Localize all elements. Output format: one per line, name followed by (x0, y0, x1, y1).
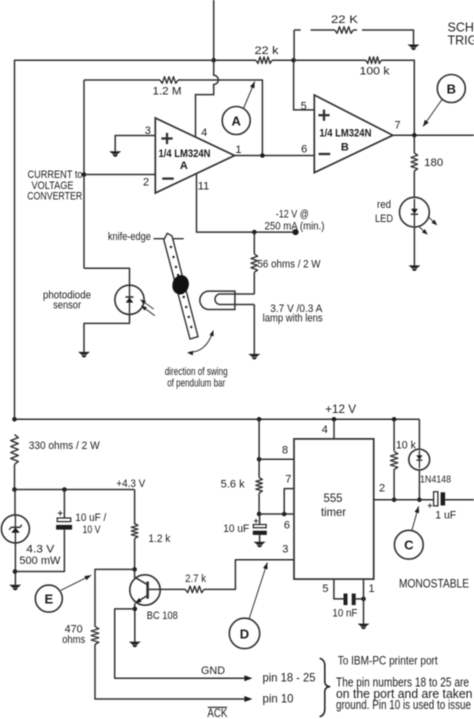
svg-text:BC 108: BC 108 (147, 610, 178, 622)
wire 22K dashed segment a (294, 29, 301, 31)
arrow label C to pin2 node (412, 506, 419, 530)
wire pin 5 stub (294, 60, 315, 110)
svg-text:1/4 LM324N: 1/4 LM324N (319, 128, 371, 140)
wire pin 1 drop (363, 579, 365, 624)
wire collector branch to 470 (95, 569, 135, 626)
wire 10uF2 to ground (259, 535, 261, 542)
resistor 1.2k (131, 524, 138, 539)
svg-text:timer: timer (321, 505, 346, 519)
wire LED to ground (413, 227, 415, 265)
svg-text:5: 5 (301, 100, 307, 112)
resistor 100k (366, 57, 382, 64)
resistor 22k (256, 57, 272, 64)
svg-text:1.2 k: 1.2 k (148, 533, 170, 545)
wire 1.2M feedback (84, 79, 160, 81)
pendulum bar (164, 233, 198, 339)
node +12V left rail junction (12, 417, 17, 422)
IC 555 box (294, 439, 374, 579)
svg-text:A: A (180, 160, 188, 172)
diode 1N4148 symbol (418, 451, 420, 469)
svg-text:2: 2 (379, 483, 385, 495)
wire node to 100k (294, 59, 366, 61)
svg-text:direction of swing: direction of swing (165, 366, 228, 378)
ground LED (408, 265, 420, 268)
transistor emitter lead (137, 596, 146, 602)
resistor 470 ohms (91, 627, 99, 645)
svg-text:1: 1 (369, 583, 375, 595)
capacitor 10uF/10V (57, 518, 70, 522)
wire 10k drop (393, 419, 395, 451)
transistor Q1 BC108 circle (130, 575, 160, 605)
svg-text:555: 555 (324, 491, 343, 505)
node 5.6k-10uF junction (257, 512, 262, 517)
node +4.3V zener junction (12, 487, 17, 492)
wire 22K feedback riser (293, 30, 295, 60)
svg-text:5.6 k: 5.6 k (221, 479, 245, 491)
svg-text:3: 3 (145, 125, 151, 137)
svg-text:330 ohms / 2 W: 330 ohms / 2 W (29, 440, 101, 452)
wire 10nF to pin1 (356, 598, 364, 600)
terminal -12V supply dot (292, 229, 298, 235)
svg-text:11: 11 (198, 181, 209, 193)
svg-text:10 k: 10 k (396, 440, 416, 452)
wire pin 2 stub (374, 499, 434, 501)
photodiode symbol (129, 286, 131, 314)
wire zener bottom (14, 543, 16, 585)
wire 22K dashed segment b (311, 29, 335, 31)
wire 10uF top lead (63, 490, 65, 519)
wire +12V corner to diode (418, 419, 420, 449)
wire +12V feed from top edge (213, 0, 215, 60)
arrow label B to output node (423, 100, 442, 127)
arrow pin 18-25 (244, 675, 252, 681)
wire 22k input segment (214, 59, 256, 61)
wire pin 6 stub (259, 513, 294, 515)
node diode-pin2 junction (417, 498, 422, 503)
resistor 10k (390, 452, 397, 470)
svg-text:2: 2 (143, 176, 149, 188)
circle label D (229, 618, 259, 648)
svg-text:TRIGGER: TRIGGER (448, 34, 474, 48)
svg-text:7: 7 (395, 119, 401, 131)
op-amp B minus input symbol (319, 153, 331, 155)
wire 56 ohm to lamp (253, 272, 255, 294)
wire 22K segment d to corner (362, 30, 414, 45)
svg-text:pin 18 - 25: pin 18 - 25 (263, 671, 316, 685)
svg-text:22 k: 22 k (255, 45, 280, 57)
wire output to 180 (413, 135, 415, 153)
brace printer port (320, 658, 331, 716)
svg-text:C: C (404, 538, 414, 553)
wire 330 to +4.3 node (14, 464, 16, 489)
circle label A (222, 107, 250, 135)
lamp filament lens loop (215, 294, 254, 305)
svg-text:500 mW: 500 mW (19, 555, 61, 567)
node zener-capacitor junction (13, 569, 18, 574)
node 10uF junction (62, 487, 67, 492)
knife-edge marker line (154, 238, 184, 240)
svg-text:pin 10: pin 10 (263, 692, 294, 706)
node pin7 junction (282, 512, 287, 517)
wire 100k to corner and down to output node (381, 60, 414, 135)
resistor 180 (411, 153, 418, 171)
capacitor 10uF timing (253, 525, 266, 528)
wire GND branch (115, 609, 251, 678)
op-amp U1A triangle (155, 118, 234, 193)
svg-text:LED: LED (375, 213, 393, 225)
node pin 8 junction (257, 457, 262, 462)
svg-text:-12 V @: -12 V @ (276, 209, 309, 221)
ground pin 3 (109, 151, 121, 154)
node 5.6k rail junction (257, 417, 262, 422)
svg-text:56 ohms / 2 W: 56 ohms / 2 W (258, 259, 322, 271)
wire diode to pin2 wire (418, 469, 420, 500)
ground photodiode (78, 352, 90, 355)
circle label E (35, 585, 62, 612)
arrow label D to pin3 wire (249, 563, 267, 619)
svg-text:10 nF: 10 nF (332, 607, 357, 619)
wire 2.7k to 555 pin3 (204, 560, 294, 590)
wire +12V rail (15, 418, 420, 420)
svg-text:8: 8 (282, 445, 288, 457)
svg-text:3: 3 (282, 543, 288, 555)
photodiode D1 circle (115, 285, 144, 314)
svg-text:4: 4 (322, 424, 328, 436)
svg-text:22 K: 22 K (331, 14, 359, 26)
wire 10uF2 top lead (259, 514, 261, 525)
wire pin 2 stub (84, 174, 155, 176)
wire photodiode bottom bracket (84, 314, 130, 352)
swing direction arc (190, 333, 213, 353)
svg-text:+12 V: +12 V (325, 404, 356, 416)
svg-text:100 k: 100 k (360, 65, 391, 77)
LED emission arrows (429, 217, 435, 223)
svg-text:sensor: sensor (53, 300, 81, 312)
svg-text:red: red (377, 199, 391, 211)
op-amp A minus input symbol (162, 177, 174, 179)
photodiode light arrows (143, 301, 154, 309)
svg-text:6: 6 (284, 519, 290, 531)
wire 5.6k to pin6 node (258, 493, 260, 514)
svg-text:ohms: ohms (62, 634, 85, 646)
node 56 ohm junction (252, 230, 257, 235)
wire lamp to ground (253, 305, 255, 354)
node output junction (412, 133, 417, 138)
svg-text:1.2 M: 1.2 M (153, 86, 182, 98)
wire pin 11 to -12V rail (197, 174, 296, 233)
wire 22k to node (272, 59, 294, 61)
node op-amp B pin5 net (291, 58, 296, 63)
wire 1.2k drop (134, 490, 136, 525)
wire 470 to pin10 line (95, 644, 250, 699)
op-amp U1B triangle (314, 95, 393, 173)
resistor 330 ohms (11, 435, 19, 465)
svg-text:A: A (232, 114, 242, 129)
node feedback/output junction (260, 153, 265, 158)
svg-text:B: B (341, 141, 349, 153)
svg-text:lamp with lens: lamp with lens (263, 313, 323, 325)
node +12V top junction (211, 58, 216, 63)
svg-text:D: D (240, 626, 249, 641)
transistor collector lead (135, 569, 147, 584)
arrow pin 10 (244, 696, 252, 702)
diode 1N4148 circle (409, 449, 430, 470)
wire pin 7 jog (284, 489, 294, 514)
wire pin 8 stub (259, 458, 294, 460)
wire pin 4 stub (333, 419, 335, 439)
svg-text:10 uF /: 10 uF / (75, 512, 107, 524)
wire 1uF to right edge (445, 499, 474, 501)
wire 1.2M to down corner (178, 80, 262, 156)
ground 10uF timing (254, 542, 266, 545)
node 10k rail junction (392, 417, 397, 422)
wire 22K segment c (353, 29, 357, 31)
svg-text:6: 6 (301, 144, 307, 156)
wire 180 to LED (413, 171, 415, 197)
svg-text:10 V: 10 V (83, 524, 102, 536)
wire -12V to 56 ohm (253, 232, 255, 254)
node collector junction (132, 567, 137, 572)
wire hop pin4 over feedback (196, 60, 219, 137)
resistor 56 ohms (251, 254, 258, 272)
wire 5.6k drop (258, 419, 260, 477)
svg-text:CONVERTER: CONVERTER (27, 191, 82, 203)
svg-text:4: 4 (201, 127, 207, 139)
svg-text:1N4148: 1N4148 (420, 474, 451, 486)
svg-text:+4.3 V: +4.3 V (116, 478, 146, 490)
wire pin 3 stub (115, 136, 155, 152)
wire photodiode top bracket (84, 268, 130, 285)
svg-text:SCHMITT: SCHMITT (448, 21, 474, 35)
wire top rail to left rail corner (15, 60, 214, 419)
LED symbol (413, 199, 415, 209)
svg-text:MONOSTABLE: MONOSTABLE (399, 576, 469, 590)
resistor 1.2M (160, 77, 178, 84)
svg-text:ground. Pin 10 is used to issu: ground. Pin 10 is used to issue (336, 698, 471, 712)
svg-text:of pendulum bar: of pendulum bar (167, 377, 225, 389)
wire 10k to pin2 wire (393, 469, 395, 500)
capacitor 10nF (344, 594, 348, 606)
resistor 2.7k (185, 586, 204, 593)
svg-text:GND: GND (201, 665, 225, 677)
ground 22K (408, 45, 420, 48)
svg-text:180: 180 (424, 157, 443, 169)
svg-text:To IBM-PC printer port: To IBM-PC printer port (338, 653, 439, 667)
resistor 22K (335, 27, 354, 34)
wire 10uF return (15, 530, 64, 572)
svg-text:E: E (44, 592, 53, 607)
resistor 5.6k (256, 478, 263, 494)
svg-text:B: B (447, 82, 456, 97)
svg-text:1/4 LM324N: 1/4 LM324N (159, 148, 211, 160)
circle label C (394, 530, 423, 559)
pendulum bob (170, 273, 191, 296)
arrow label A to feedback wire (244, 82, 255, 109)
zener symbol (14, 515, 16, 543)
ground emitter (129, 642, 141, 645)
zener D3 circle (1, 515, 29, 543)
op-amp B plus input symbol (318, 114, 329, 116)
wire pin 5 drop (334, 579, 344, 599)
node emitter junction (133, 607, 138, 612)
capacitor 1uF output (434, 492, 438, 506)
transistor base bar (146, 582, 149, 599)
node pin 4 junction (332, 417, 337, 422)
transistor base lead (148, 588, 161, 590)
arrow label E to collector branch (61, 575, 91, 590)
lamp L1 envelope (200, 291, 235, 309)
circle label B (437, 75, 465, 103)
node 10k-pin2 junction (392, 498, 397, 503)
ground zener (9, 585, 21, 588)
wire 1.2k to collector node (134, 539, 136, 570)
wire zener top (14, 490, 16, 515)
svg-text:4.3 V: 4.3 V (26, 544, 55, 556)
wire op-amp B output to right edge (393, 134, 474, 136)
svg-text:1 uF: 1 uF (435, 509, 456, 521)
ground lamp (248, 354, 260, 357)
op-amp A plus input symbol (161, 137, 172, 139)
LED D2 red circle (400, 197, 430, 227)
wire op-amp A output to op-amp B pin 6 (235, 155, 315, 157)
wire base to 2.7k (160, 588, 185, 590)
svg-text:1: 1 (235, 144, 241, 156)
wire inverting input rail (83, 80, 85, 268)
svg-text:7: 7 (285, 474, 291, 486)
node pin2 input junction (82, 172, 87, 177)
svg-text:250 mA (min.): 250 mA (min.) (265, 221, 325, 233)
svg-text:2.7 k: 2.7 k (185, 573, 206, 585)
svg-text:knife-edge: knife-edge (108, 231, 151, 243)
svg-text:5: 5 (322, 583, 328, 595)
wire +4.3V rail (15, 489, 135, 491)
ground pin 1 (358, 624, 370, 627)
pendulum bar rivet dots (170, 246, 172, 248)
svg-text:10 uF: 10 uF (223, 523, 249, 535)
node pin1 junction (361, 597, 366, 602)
wire emitter down (134, 603, 136, 641)
